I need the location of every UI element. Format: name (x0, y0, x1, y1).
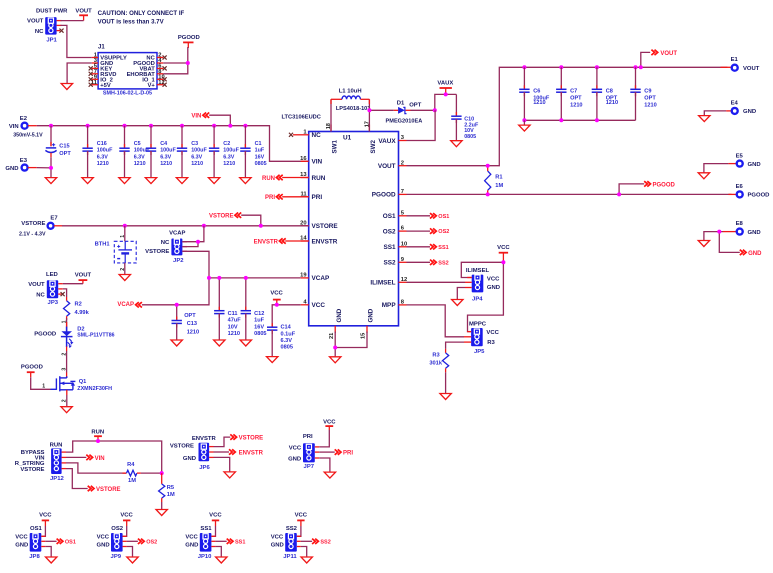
power symbol PGOOD (Q1 gate) (21, 365, 43, 378)
svg-text:D1: D1 (397, 101, 405, 107)
svg-text:C8: C8 (606, 89, 613, 95)
net label OS2 (JP9) (127, 539, 158, 546)
resistor R2 4.99k (63, 297, 89, 320)
svg-text:+5V: +5V (100, 83, 111, 89)
svg-text:C5: C5 (134, 141, 141, 147)
svg-text:SMH-106-02-L-D-05: SMH-106-02-L-D-05 (103, 90, 152, 96)
svg-text:19: 19 (300, 273, 307, 279)
jumper JP6 ENVSTR (170, 436, 217, 471)
power symbol VCC (pin4) (270, 290, 283, 304)
wire JP10 bottom to ground (215, 547, 221, 557)
svg-text:OPT: OPT (570, 95, 582, 101)
svg-text:100uF: 100uF (97, 148, 113, 154)
wire J1 PGOOD pin4/pin8 (163, 62, 188, 64)
svg-text:3: 3 (61, 368, 67, 371)
power symbol PGOOD (J1) (178, 35, 200, 48)
svg-text:C13: C13 (187, 321, 197, 327)
svg-text:VCC: VCC (487, 276, 500, 282)
U1 pin 11 PRI (300, 191, 322, 201)
svg-text:16: 16 (300, 156, 307, 162)
svg-text:VOUT: VOUT (660, 51, 677, 57)
wire VSTORE rail to pin20 (62, 225, 309, 227)
svg-text:1uF: 1uF (255, 148, 265, 154)
net label VSTORE (rail) (209, 213, 261, 226)
svg-text:1210: 1210 (134, 161, 146, 167)
svg-text:OS2: OS2 (111, 526, 124, 532)
svg-text:VCC: VCC (497, 245, 510, 251)
svg-text:12: 12 (401, 277, 407, 283)
junction dots VIN rail (49, 124, 53, 128)
svg-text:0805: 0805 (254, 331, 266, 337)
svg-text:JP11: JP11 (283, 554, 297, 560)
ground (U1) (330, 357, 341, 363)
net label VIN (JP12) (66, 455, 105, 462)
wire VAUX node to pin3 (407, 110, 436, 140)
svg-text:GND: GND (336, 308, 343, 322)
svg-text:OS1: OS1 (383, 213, 396, 220)
svg-text:PRI: PRI (312, 194, 323, 201)
wire VCC down to JP5 (468, 262, 504, 331)
wire VCC pin4 (272, 305, 301, 327)
terminal E4 GND (726, 101, 756, 116)
wire E4 to ground (704, 111, 726, 116)
ground (JP9) (127, 557, 138, 563)
svg-text:C3: C3 (191, 141, 198, 147)
svg-text:ENVSTR: ENVSTR (312, 238, 338, 245)
svg-text:301k: 301k (429, 361, 442, 367)
svg-text:SS1: SS1 (438, 245, 448, 251)
svg-text:100uF: 100uF (223, 148, 239, 154)
svg-text:JP7: JP7 (304, 464, 315, 470)
svg-text:E4: E4 (731, 101, 739, 107)
wire JP2 bottom to VCAP line (182, 251, 209, 278)
svg-text:C2: C2 (223, 141, 230, 147)
resistor R3 301k (429, 342, 464, 393)
net label GND (E8) (719, 232, 762, 257)
svg-text:E3: E3 (20, 158, 28, 164)
terminal E3 GND (5, 158, 36, 172)
svg-text:MPPC: MPPC (469, 321, 487, 327)
svg-text:Q1: Q1 (79, 379, 87, 385)
svg-text:R5: R5 (167, 485, 174, 491)
wire R2 to D2 (66, 318, 68, 331)
svg-text:JP9: JP9 (111, 554, 122, 560)
U1 pin 3 VAUX (378, 135, 406, 145)
svg-text:ENVSTR: ENVSTR (254, 239, 279, 245)
svg-text:C7: C7 (570, 89, 577, 95)
resistor R5 1M (159, 473, 175, 509)
svg-text:100uF: 100uF (160, 148, 176, 154)
svg-text:PGOOD: PGOOD (21, 365, 43, 371)
power symbol VCC (JP10) (209, 513, 222, 526)
U1 pin 1 NC (289, 129, 321, 139)
svg-text:6.3V: 6.3V (97, 154, 108, 160)
wire JP2 mid pin (182, 242, 198, 247)
junction VAUX (444, 92, 448, 96)
svg-text:C11: C11 (228, 311, 238, 317)
no-connect X on JP1 pin NC (59, 29, 63, 33)
wire E5 to ground (704, 164, 729, 173)
power symbol VCC (JP11) (295, 513, 308, 526)
svg-text:RUN: RUN (91, 429, 104, 435)
battery BTH1 (95, 226, 137, 274)
svg-text:VCC: VCC (323, 419, 336, 425)
svg-text:100uF: 100uF (191, 148, 207, 154)
ground (C6) (519, 125, 530, 131)
svg-text:PGOOD: PGOOD (748, 193, 770, 199)
no-connect X marks J1 right pins (163, 55, 167, 59)
jumper JP5 MPPC (464, 321, 500, 355)
capacitor C16 100uF (82, 126, 113, 178)
svg-text:1M: 1M (495, 183, 503, 189)
capacitor C1 1uF (240, 126, 266, 178)
terminal E8 GND (723, 221, 761, 236)
net label RUN (pin13) (262, 175, 309, 182)
svg-text:JP6: JP6 (199, 465, 210, 471)
ground (C5) (119, 178, 130, 184)
wire JP9 bottom to ground (127, 547, 133, 557)
power symbol VOUT (JP1) (75, 9, 92, 21)
svg-text:E6: E6 (736, 184, 744, 190)
ground (JP7) (324, 472, 335, 478)
resistor R1 1M (485, 166, 504, 195)
svg-text:JP5: JP5 (474, 349, 485, 355)
net label VOUT (641, 50, 678, 68)
svg-text:DUST PWR: DUST PWR (36, 9, 68, 15)
svg-text:GND: GND (748, 162, 761, 168)
svg-text:VAUX: VAUX (378, 138, 396, 145)
wire PGOOD pin7 to E6 (407, 193, 732, 195)
wire PGOOD to Q1 gate (31, 377, 51, 389)
svg-text:R2: R2 (75, 302, 82, 308)
svg-text:47uF: 47uF (228, 318, 242, 324)
ground (C12) (240, 340, 251, 346)
svg-text:OPT: OPT (644, 95, 656, 101)
ground (BTH1) (119, 275, 130, 281)
svg-text:LPS4018-103: LPS4018-103 (336, 106, 371, 112)
wire JP1 pin1 to VOUT (61, 20, 84, 22)
svg-text:6.3V: 6.3V (223, 154, 234, 160)
svg-text:OS1: OS1 (30, 526, 43, 532)
svg-text:SS2: SS2 (384, 260, 397, 267)
terminal E7 VSTORE (19, 215, 62, 237)
capacitor C15 (polarized, OPT) (45, 126, 71, 168)
inductor L1 10uH (331, 88, 370, 112)
ground (C15) (45, 178, 56, 184)
svg-text:ENVSTR: ENVSTR (192, 436, 217, 442)
wire D2 to Q1 (66, 347, 68, 352)
svg-text:VCC: VCC (185, 535, 198, 541)
svg-text:VSTORE: VSTORE (96, 487, 121, 493)
capacitor C10 2.2uF (451, 94, 479, 140)
svg-text:SS1: SS1 (384, 244, 397, 251)
svg-text:VSTORE: VSTORE (21, 221, 45, 227)
ground (C11) (214, 340, 225, 346)
svg-text:C1: C1 (255, 141, 262, 147)
U1 pin 17 SW2 (365, 121, 377, 153)
capacitor C8 (592, 67, 618, 120)
capacitor C3 100uF (177, 126, 208, 178)
svg-text:VSTORE: VSTORE (20, 467, 44, 473)
ground (C1) (240, 178, 251, 184)
svg-text:ENVSTR: ENVSTR (239, 450, 264, 456)
svg-text:RUN: RUN (312, 175, 326, 182)
svg-text:RUN: RUN (262, 176, 275, 182)
net label ENVSTR (JP6) (214, 449, 264, 456)
svg-text:VOUT: VOUT (75, 9, 92, 15)
net label OS1 (JP8) (45, 539, 76, 546)
svg-text:LTC3106EUDC: LTC3106EUDC (282, 115, 321, 121)
jumper JP8 OS1 (15, 526, 45, 560)
ground (E5) (698, 173, 709, 179)
svg-text:VCAP: VCAP (312, 275, 330, 282)
wire pin8 MPP to JP5 mid (407, 305, 465, 337)
wire VCAP drop (142, 278, 209, 305)
junction dots VOUT rail (522, 65, 526, 69)
wire JP4 bottom to ground (457, 288, 465, 300)
svg-text:1210: 1210 (570, 103, 582, 109)
svg-text:GND: GND (748, 251, 762, 257)
svg-text:VIN: VIN (191, 114, 201, 120)
U1 pin 12 ILIMSEL (370, 277, 407, 287)
ground (C16) (82, 178, 93, 184)
jumper JP11 SS2 (271, 526, 301, 560)
svg-text:GND: GND (15, 542, 28, 548)
capacitor C4 100uF (146, 126, 177, 178)
diode D1 PMEG2010EA (OPT) (386, 101, 423, 125)
svg-text:JP8: JP8 (29, 554, 40, 560)
U1 pin 14 ENVSTR (300, 236, 338, 246)
svg-text:VCC: VCC (97, 535, 110, 541)
svg-text:JP3: JP3 (48, 300, 59, 306)
wire JP7 bottom to ground (319, 458, 330, 472)
svg-text:VCC: VCC (486, 330, 499, 336)
svg-text:GND: GND (487, 285, 500, 291)
ground (J1) (61, 84, 72, 90)
svg-text:1210: 1210 (533, 100, 545, 106)
svg-text:VCC: VCC (120, 513, 133, 519)
svg-text:R4: R4 (127, 462, 135, 468)
wire VCC to JP8 top (41, 526, 45, 536)
svg-text:SS1: SS1 (235, 540, 245, 546)
svg-text:V+: V+ (148, 83, 156, 89)
ground (C10) (451, 141, 462, 147)
junction E3/C15 (49, 166, 53, 170)
no-connect X JP3 (61, 292, 65, 296)
svg-text:LED: LED (46, 272, 58, 278)
svg-text:1: 1 (120, 235, 126, 238)
ground (C4) (145, 178, 156, 184)
svg-text:2: 2 (401, 160, 404, 166)
svg-text:J1: J1 (98, 45, 105, 51)
wire C6-C9 bottom rail (524, 119, 635, 121)
svg-text:GND: GND (743, 109, 756, 115)
net label SS1 (JP10) (215, 539, 245, 546)
svg-text:VCC: VCC (295, 513, 308, 519)
svg-text:16V: 16V (255, 154, 265, 160)
U1 pin 6 OS2 (383, 226, 407, 236)
svg-text:VSTORE: VSTORE (312, 223, 339, 230)
ground (JP8) (46, 557, 57, 563)
svg-text:OS1: OS1 (65, 540, 76, 546)
U1 pin 18 SW1 (326, 123, 338, 153)
capacitor C13 OPT (172, 305, 200, 340)
net label SS2 (407, 260, 449, 267)
ground (R5) (156, 510, 167, 516)
op-amp? no: IC U1 LTC3106EUDC body (282, 115, 399, 326)
U1 pin 8 MPP (382, 300, 407, 310)
svg-text:VCC: VCC (289, 445, 302, 451)
ground (R3) (440, 394, 451, 400)
svg-text:7: 7 (401, 189, 404, 195)
junction dots VSTORE rail (123, 224, 127, 228)
capacitor C2 100uF (209, 126, 240, 178)
svg-text:VOUT: VOUT (75, 272, 92, 278)
wire VIN rail (37, 126, 309, 162)
svg-text:VSTORE: VSTORE (239, 436, 264, 442)
U1 pin 9 SS2 (384, 257, 407, 267)
wire JP8 bottom to ground (45, 547, 51, 557)
svg-text:SS2: SS2 (320, 540, 330, 546)
ground (C3) (176, 178, 187, 184)
svg-text:VSTORE: VSTORE (209, 214, 234, 220)
wire JP3 top to VOUT (63, 283, 83, 285)
U1 pin 21 GND (329, 308, 343, 339)
terminal E1 VOUT (721, 57, 760, 72)
jumper JP9 OS2 (97, 526, 127, 560)
svg-text:15: 15 (361, 333, 367, 339)
svg-text:6.3V: 6.3V (281, 338, 293, 344)
net label SS1 (407, 244, 449, 251)
svg-text:JP1: JP1 (46, 37, 57, 43)
net label ENVSTR (pin14) (254, 238, 309, 245)
svg-text:ILIMSEL: ILIMSEL (466, 268, 490, 274)
wire C6 to ground (523, 120, 525, 125)
svg-text:VIN: VIN (312, 159, 323, 166)
svg-text:16V: 16V (254, 324, 264, 330)
svg-text:JP2: JP2 (173, 258, 184, 264)
wire JP6 bottom to ground (214, 457, 230, 471)
U1 pin 15 GND (361, 308, 375, 339)
jumper JP1 DUST PWR (27, 9, 68, 44)
net label VIN (191, 113, 230, 126)
svg-text:VCAP: VCAP (169, 230, 185, 236)
transistor Q1 ZXMN2F30FH (51, 376, 113, 392)
capacitor C11 47uF (214, 278, 241, 340)
svg-text:U1: U1 (343, 135, 352, 142)
U1 pin 19 VCAP (300, 273, 330, 283)
LED D2 SML-P11VTT86 (34, 322, 114, 347)
ground (C2) (208, 178, 219, 184)
svg-text:SML-P11VTT86: SML-P11VTT86 (77, 333, 114, 339)
wire VCC to JP4 top (461, 262, 503, 277)
svg-text:GND: GND (368, 308, 375, 322)
capacitor C9 (630, 67, 656, 120)
svg-text:E2: E2 (20, 116, 28, 122)
svg-text:SW1: SW1 (332, 140, 339, 154)
svg-text:E5: E5 (736, 153, 744, 159)
svg-text:1210: 1210 (223, 161, 235, 167)
svg-text:2.1V - 4.3V: 2.1V - 4.3V (19, 231, 46, 237)
wire VCC to JP10 top (211, 526, 215, 536)
wire SW1 to L1 (330, 99, 332, 131)
power symbol VCC (JP9) (120, 513, 133, 526)
svg-text:VIN: VIN (95, 456, 105, 462)
jumper JP10 SS1 (185, 526, 215, 560)
svg-text:ILIMSEL: ILIMSEL (370, 280, 395, 287)
svg-text:VOUT: VOUT (28, 282, 45, 288)
resistor R4 1M (123, 462, 141, 484)
svg-text:21: 21 (329, 333, 335, 339)
svg-text:VCAP: VCAP (117, 302, 134, 308)
ground (E8) (698, 241, 709, 247)
power symbol VAUX (437, 80, 453, 94)
capacitor C7 (556, 67, 582, 120)
power symbol VCC (JP4) (497, 245, 510, 262)
svg-text:C16: C16 (97, 141, 107, 147)
net label VCAP (117, 302, 142, 308)
svg-text:GND: GND (271, 542, 284, 548)
net label OS2 (407, 228, 450, 235)
svg-text:C14: C14 (281, 325, 292, 331)
net label VSTORE (JP12) (66, 469, 121, 493)
svg-text:GND: GND (748, 230, 761, 236)
ground (E4) (699, 116, 710, 122)
svg-text:SW2: SW2 (370, 140, 377, 154)
net label PRI (pin11) (265, 194, 309, 201)
svg-text:GND: GND (183, 456, 196, 462)
no-connect X marks J1 left pins (89, 66, 93, 70)
svg-text:1210: 1210 (97, 161, 109, 167)
U1 pin 13 RUN (300, 172, 326, 182)
wire JP12 pin3 to R4 (66, 463, 127, 473)
svg-text:NC: NC (312, 132, 322, 139)
svg-text:NC: NC (161, 240, 170, 246)
jumper JP7 PRI (288, 434, 319, 470)
svg-text:NC: NC (36, 292, 45, 298)
svg-text:VOUT is less than 3.7V: VOUT is less than 3.7V (98, 19, 165, 26)
svg-text:2: 2 (120, 268, 126, 271)
svg-text:JP10: JP10 (198, 554, 212, 560)
svg-text:0.1uF: 0.1uF (281, 331, 296, 337)
svg-text:SS2: SS2 (286, 526, 298, 532)
wire VSTORE rail to JP2 top (182, 226, 204, 242)
svg-text:VSTORE: VSTORE (170, 444, 194, 450)
svg-text:6.3V: 6.3V (134, 154, 145, 160)
svg-text:10V: 10V (228, 324, 238, 330)
svg-text:1uF: 1uF (254, 318, 265, 324)
svg-text:1210: 1210 (191, 161, 203, 167)
svg-text:L1 10uH: L1 10uH (339, 88, 362, 94)
jumper JP12 (15, 442, 66, 481)
svg-text:PMEG2010EA: PMEG2010EA (386, 118, 423, 124)
svg-text:10: 10 (401, 241, 407, 247)
svg-text:R1: R1 (495, 175, 502, 181)
svg-text:PRI: PRI (303, 434, 313, 440)
power symbol VCC (JP8) (39, 513, 52, 526)
svg-text:MPP: MPP (382, 302, 397, 309)
svg-text:1210: 1210 (644, 103, 656, 109)
U1 pin 20 VSTORE (300, 220, 338, 230)
svg-text:PGOOD: PGOOD (372, 192, 396, 199)
svg-text:OS1: OS1 (438, 214, 449, 220)
svg-text:VOUT: VOUT (27, 19, 44, 25)
ground (JP6) (224, 472, 235, 478)
svg-text:PRI: PRI (265, 195, 275, 201)
svg-text:2: 2 (61, 353, 67, 356)
ground (JP4) (452, 300, 463, 306)
ground (C14) (267, 357, 278, 363)
